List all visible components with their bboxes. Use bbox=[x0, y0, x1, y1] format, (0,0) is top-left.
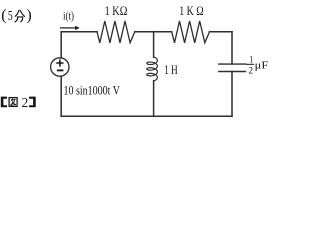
svg-text:i(t): i(t) bbox=[63, 9, 74, 23]
svg-text:μF: μF bbox=[255, 60, 269, 72]
svg-text:5: 5 bbox=[8, 9, 13, 24]
svg-text:10 sin1000t V: 10 sin1000t V bbox=[64, 82, 121, 97]
svg-text:2: 2 bbox=[22, 95, 29, 110]
svg-text:1 K Ω: 1 K Ω bbox=[179, 4, 203, 18]
svg-text:): ) bbox=[26, 7, 31, 24]
svg-text:1 KΩ: 1 KΩ bbox=[105, 4, 128, 18]
svg-text:(: ( bbox=[1, 7, 6, 24]
svg-text:1 H: 1 H bbox=[164, 62, 177, 77]
svg-text:2: 2 bbox=[248, 67, 253, 77]
